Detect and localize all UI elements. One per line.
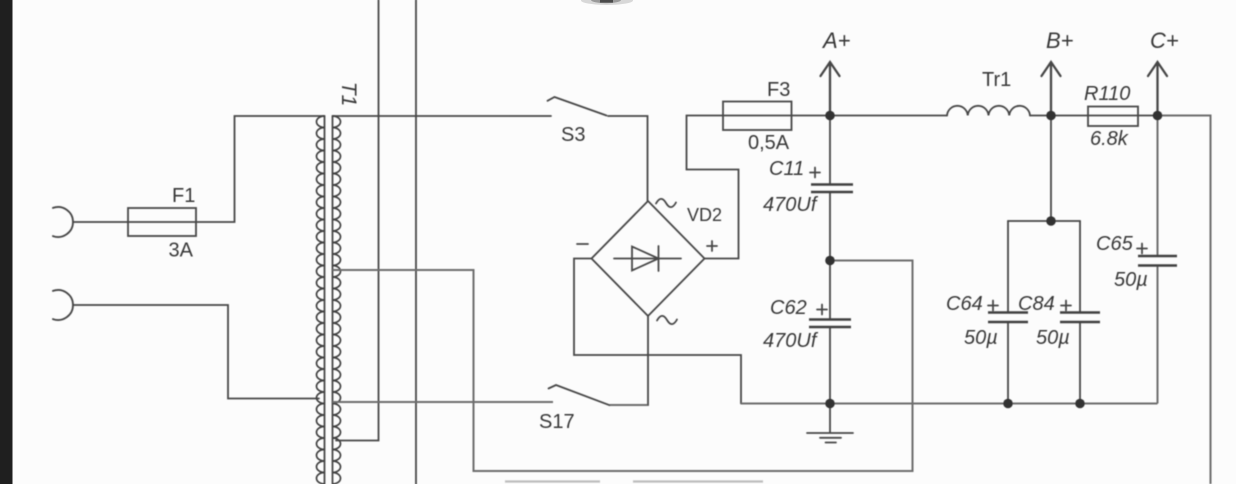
- svg-text:C11: C11: [769, 158, 804, 180]
- svg-text:C+: C+: [1150, 28, 1179, 53]
- svg-text:F1: F1: [172, 185, 195, 207]
- svg-text:0,5A: 0,5A: [748, 132, 790, 154]
- svg-text:R110: R110: [1084, 83, 1130, 105]
- svg-text:Tr1: Tr1: [982, 69, 1011, 91]
- svg-text:C64: C64: [946, 293, 983, 315]
- svg-text:A+: A+: [821, 28, 851, 53]
- svg-text:B+: B+: [1046, 28, 1074, 53]
- svg-text:C62: C62: [770, 297, 807, 319]
- svg-text:T1: T1: [337, 82, 360, 107]
- svg-text:50µ: 50µ: [1114, 269, 1148, 291]
- svg-text:C84: C84: [1018, 293, 1055, 315]
- svg-text:470Uf: 470Uf: [763, 194, 819, 216]
- svg-text:50µ: 50µ: [964, 327, 998, 349]
- svg-text:3A: 3A: [169, 240, 194, 262]
- svg-text:F3: F3: [767, 79, 790, 101]
- svg-text:6.8k: 6.8k: [1090, 128, 1129, 150]
- svg-text:C65: C65: [1096, 233, 1134, 255]
- svg-text:470Uf: 470Uf: [763, 330, 819, 352]
- svg-text:S3: S3: [561, 124, 585, 146]
- svg-text:S17: S17: [539, 411, 575, 433]
- svg-text:50µ: 50µ: [1036, 327, 1070, 349]
- svg-text:VD2: VD2: [687, 205, 722, 225]
